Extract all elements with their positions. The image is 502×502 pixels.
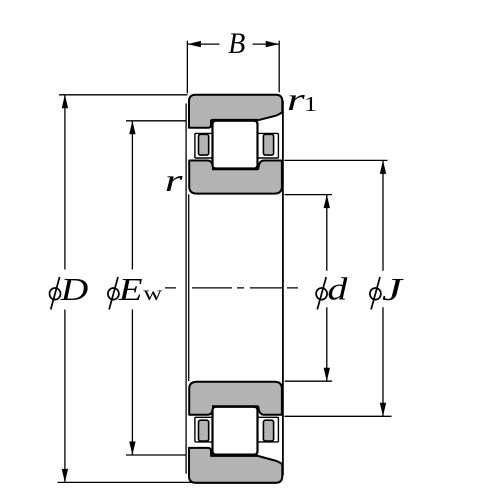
bottom half assembly (mirrored) [189, 448, 282, 483]
extension line B left [186, 41, 188, 94]
cage rails bottom [195, 417, 279, 442]
cage bar left bottom [199, 420, 209, 441]
svg-text:r: r [165, 163, 184, 198]
outer ring top section [189, 95, 282, 128]
left face silhouette line [185, 103, 187, 473]
dimension line phiD [64, 95, 66, 483]
extension line phiD top [59, 94, 188, 96]
dimension line phid [326, 195, 328, 382]
label phiEw : phi glyph [108, 277, 119, 310]
svg-text:B: B [228, 27, 245, 60]
top half assembly [189, 95, 282, 194]
extension line phid top [285, 194, 332, 196]
outer raceway line bottom [212, 453, 258, 455]
arrow phiEw top [129, 121, 135, 135]
outer raceway line top [212, 119, 258, 122]
svg-text:D: D [60, 272, 89, 307]
cage bar left top [199, 134, 209, 155]
svg-text:d: d [327, 271, 348, 306]
centerline axis [165, 287, 298, 289]
inner raceway line top [212, 167, 258, 170]
label phiD : phi glyph [50, 277, 61, 310]
extension line phiEw bottom [126, 454, 187, 456]
svg-text:E: E [118, 271, 143, 307]
inner ring bottom section [189, 382, 282, 415]
svg-text:r: r [287, 82, 306, 117]
outer ring bottom section [189, 448, 282, 483]
extension line phiEw top [126, 120, 187, 122]
label phiJ : phi glyph [370, 277, 381, 310]
dimension line phiJ [382, 160, 384, 416]
arrow B right [266, 41, 280, 47]
extension line phiJ bottom [284, 415, 391, 417]
arrow phiD bottom [62, 469, 68, 483]
dimension line B [187, 43, 279, 45]
arrow phiD top [62, 95, 68, 109]
cage bar right bottom [263, 420, 273, 441]
arrow phid top [324, 195, 330, 209]
extension line B right [278, 41, 280, 93]
cage rails top [195, 133, 279, 158]
arrow phiJ bottom [380, 403, 386, 417]
inner ring top section [189, 161, 282, 194]
arrow phid bottom [324, 368, 330, 382]
arrow phiJ top [380, 160, 386, 174]
left inner chamfer silhouette line [188, 194, 190, 381]
cage bar right top [263, 134, 273, 155]
arrow phiEw bottom [129, 442, 135, 456]
svg-text:w: w [143, 282, 163, 305]
roller bottom [213, 407, 258, 455]
dimension line phiEw [131, 121, 133, 455]
inner raceway line bottom [212, 405, 258, 408]
extension line phiD bottom [58, 481, 194, 483]
svg-text:J: J [382, 272, 404, 307]
extension line phiJ top [284, 159, 387, 161]
svg-text:1: 1 [304, 93, 317, 116]
label phid : phi glyph [316, 277, 327, 310]
arrow B left [187, 41, 201, 47]
roller top [213, 121, 258, 169]
right face silhouette line [282, 101, 284, 476]
extension line phid bottom [285, 380, 332, 382]
